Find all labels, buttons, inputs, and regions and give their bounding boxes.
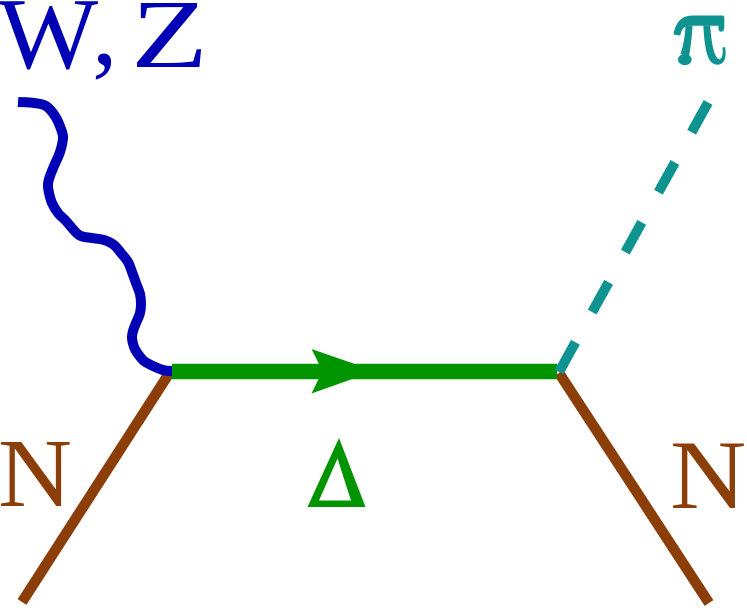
label pi (pion) bbox=[674, 16, 726, 66]
svg-text:,: , bbox=[92, 0, 118, 87]
svg-text:W: W bbox=[0, 0, 98, 91]
boson W/Z wavy propagator line bbox=[18, 102, 172, 371]
label Delta bbox=[308, 438, 366, 507]
outgoing nucleon line N (lower right) bbox=[559, 373, 709, 603]
svg-text:N: N bbox=[0, 419, 72, 527]
arrowhead on Delta propagator bbox=[312, 349, 376, 394]
Delta baryon propagator (thick line) bbox=[172, 364, 557, 380]
svg-text:N: N bbox=[670, 421, 746, 530]
incoming nucleon line N (lower left) bbox=[22, 372, 170, 602]
vertex 2 to pion: dashed pion line bbox=[559, 99, 710, 372]
svg-text:Z: Z bbox=[131, 0, 208, 89]
